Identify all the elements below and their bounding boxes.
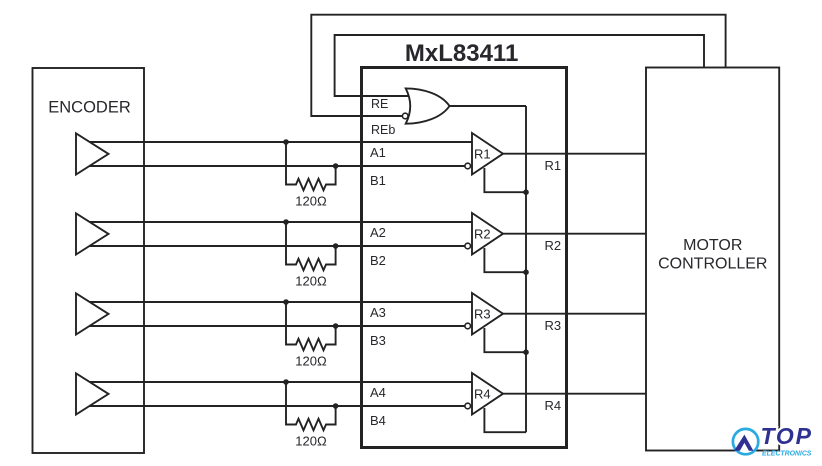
receiver U4 inverting input bubble bbox=[465, 403, 471, 409]
node junction dot on A4 bbox=[283, 379, 289, 385]
pin label B3 bbox=[370, 333, 386, 348]
pin label A4 bbox=[370, 385, 386, 400]
wire enable stub from receiver R4 to enable bus bbox=[484, 408, 526, 432]
wire R3 output from receiver to motor controller bbox=[503, 313, 646, 315]
node junction dot on A2 bbox=[283, 219, 289, 225]
svg-text:120Ω: 120Ω bbox=[295, 273, 327, 288]
node enable bus junction dot channel 1 bbox=[523, 189, 529, 195]
svg-text:R1: R1 bbox=[545, 158, 562, 173]
pin label A2 bbox=[370, 225, 386, 240]
wire B2 differential line from encoder driver to receiver bubble bbox=[85, 245, 465, 247]
wire B1 differential line from encoder driver to receiver bubble bbox=[85, 165, 465, 167]
pin label RE bbox=[371, 97, 388, 111]
pin label B2 bbox=[370, 253, 386, 268]
net label R1 output bbox=[545, 158, 562, 173]
node junction dot on A3 bbox=[283, 299, 289, 305]
svg-text:RE: RE bbox=[371, 97, 388, 111]
pin label B4 bbox=[370, 413, 386, 428]
op-amp OR gate U5 enable logic bbox=[406, 88, 450, 123]
svg-text:R1: R1 bbox=[474, 146, 491, 161]
wire R1 output from receiver to motor controller bbox=[503, 153, 646, 155]
svg-text:B4: B4 bbox=[370, 413, 386, 428]
logo arrow TOP Electronics bbox=[734, 435, 753, 451]
wire OR gate output to enable bus bbox=[449, 105, 526, 107]
wire R4 output from receiver to motor controller bbox=[503, 393, 646, 395]
wire REb feedback from motor controller to OR gate inverted input bbox=[311, 15, 725, 116]
svg-text:CONTROLLER: CONTROLLER bbox=[658, 256, 767, 273]
wire A3 differential line from encoder driver to receiver U3 bbox=[80, 301, 472, 303]
wire enable stub from receiver R1 to enable bus bbox=[484, 168, 526, 192]
wire RE feedback from motor controller to OR gate input bbox=[335, 35, 704, 96]
pin label B1 bbox=[370, 173, 386, 188]
svg-text:A2: A2 bbox=[370, 225, 386, 240]
value label 120ohm channel 1 bbox=[295, 193, 327, 208]
net label R3 output bbox=[545, 318, 562, 333]
wire enable stub from receiver R2 to enable bus bbox=[484, 248, 526, 272]
logo circle TOP Electronics bbox=[733, 429, 758, 454]
node enable bus junction dot channel 2 bbox=[523, 269, 529, 275]
wire A2 differential line from encoder driver to receiver U2 bbox=[80, 221, 472, 223]
svg-text:R3: R3 bbox=[474, 306, 491, 321]
value label 120ohm channel 2 bbox=[295, 273, 327, 288]
resistor termination 120 ohm channel 1 bbox=[286, 142, 336, 190]
MxL83411 device box bbox=[362, 68, 567, 448]
svg-text:B1: B1 bbox=[370, 173, 386, 188]
node junction dot on B1 bbox=[333, 163, 339, 169]
svg-text:R4: R4 bbox=[474, 386, 491, 401]
encoder driver buffer channel 2 bbox=[76, 213, 109, 254]
value label 120ohm channel 3 bbox=[295, 353, 327, 368]
svg-text:MxL83411: MxL83411 bbox=[405, 40, 518, 67]
wire enable bus vertical bbox=[525, 106, 527, 432]
resistor termination 120 ohm channel 2 bbox=[286, 222, 336, 270]
node junction dot on A1 bbox=[283, 139, 289, 145]
encoder driver buffer channel 1 bbox=[76, 133, 109, 174]
wire A4 differential line from encoder driver to receiver U4 bbox=[80, 381, 472, 383]
svg-text:TOP: TOP bbox=[761, 423, 813, 449]
svg-text:ENCODER: ENCODER bbox=[48, 99, 131, 117]
wire A1 differential line from encoder driver to receiver U1 bbox=[80, 141, 472, 143]
logo text ELECTRONICS bbox=[762, 451, 812, 458]
svg-text:120Ω: 120Ω bbox=[295, 193, 327, 208]
svg-text:R2: R2 bbox=[474, 226, 491, 241]
encoder driver buffer channel 3 bbox=[76, 293, 109, 334]
wire B4 differential line from encoder driver to receiver bubble bbox=[85, 405, 465, 407]
receiver U3 triangle bbox=[472, 293, 503, 335]
receiver U3 inverting input bubble bbox=[465, 323, 471, 329]
svg-text:120Ω: 120Ω bbox=[295, 433, 327, 448]
label ENCODER bbox=[48, 99, 131, 117]
svg-text:B3: B3 bbox=[370, 333, 386, 348]
pin label A3 bbox=[370, 305, 386, 320]
receiver U1 triangle bbox=[472, 133, 503, 175]
svg-text:A1: A1 bbox=[370, 145, 386, 160]
value label 120ohm channel 4 bbox=[295, 433, 327, 448]
receiver U2 triangle bbox=[472, 213, 503, 255]
svg-text:A4: A4 bbox=[370, 385, 386, 400]
svg-text:B2: B2 bbox=[370, 253, 386, 268]
node enable bus junction dot channel 3 bbox=[523, 349, 529, 355]
resistor termination 120 ohm channel 3 bbox=[286, 302, 336, 350]
receiver designator R2 inside triangle bbox=[474, 226, 491, 241]
svg-text:REb: REb bbox=[371, 123, 395, 137]
pin label REb bbox=[371, 123, 395, 137]
svg-text:R3: R3 bbox=[545, 318, 562, 333]
node junction dot on B4 bbox=[333, 403, 339, 409]
label MOTOR CONTROLLER bbox=[658, 237, 767, 273]
net label R2 output bbox=[545, 238, 562, 253]
svg-text:R4: R4 bbox=[545, 398, 562, 413]
receiver designator R1 inside triangle bbox=[474, 146, 491, 161]
encoder driver buffer channel 4 bbox=[76, 373, 109, 414]
OR gate inverted input bubble on REb bbox=[402, 113, 408, 119]
logo text TOP bbox=[761, 423, 813, 449]
svg-text:ELECTRONICS: ELECTRONICS bbox=[762, 451, 812, 458]
wire B3 differential line from encoder driver to receiver bubble bbox=[85, 325, 465, 327]
receiver U1 inverting input bubble bbox=[465, 163, 471, 169]
svg-text:R2: R2 bbox=[545, 238, 562, 253]
svg-text:MOTOR: MOTOR bbox=[683, 237, 742, 254]
wire enable stub from receiver R3 to enable bus bbox=[484, 328, 526, 352]
receiver U2 inverting input bubble bbox=[465, 243, 471, 249]
title label MxL83411 bbox=[405, 40, 518, 67]
svg-text:A3: A3 bbox=[370, 305, 386, 320]
net label R4 output bbox=[545, 398, 562, 413]
receiver U4 triangle bbox=[472, 373, 503, 415]
receiver designator R3 inside triangle bbox=[474, 306, 491, 321]
resistor termination 120 ohm channel 4 bbox=[286, 382, 336, 430]
svg-text:120Ω: 120Ω bbox=[295, 353, 327, 368]
wire R2 output from receiver to motor controller bbox=[503, 233, 646, 235]
encoder block box bbox=[33, 68, 145, 453]
node junction dot on B3 bbox=[333, 323, 339, 329]
motor controller block box bbox=[646, 68, 779, 451]
pin label A1 bbox=[370, 145, 386, 160]
node junction dot on B2 bbox=[333, 243, 339, 249]
receiver designator R4 inside triangle bbox=[474, 386, 491, 401]
